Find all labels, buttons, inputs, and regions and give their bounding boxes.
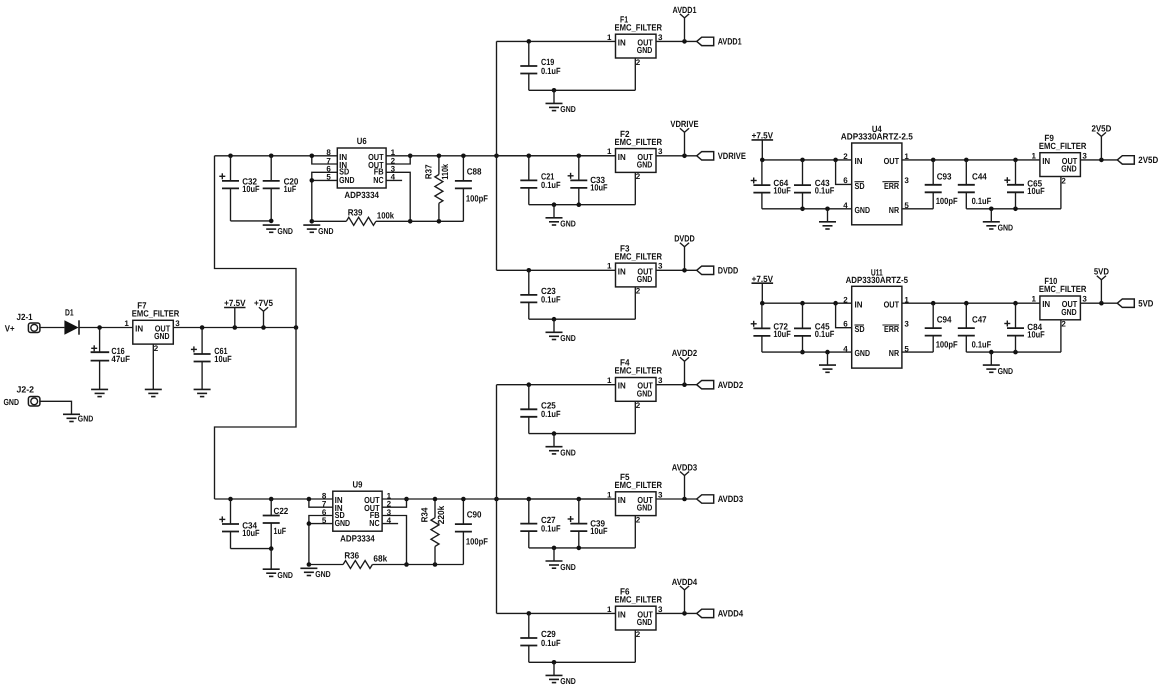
svg-text:1: 1 (607, 490, 612, 499)
wire (309, 564, 343, 566)
svg-text:2: 2 (636, 515, 641, 524)
junction (825, 207, 830, 212)
wire (382, 499, 406, 507)
junction (800, 207, 805, 212)
EMC filter F6 (607, 586, 663, 630)
svg-text:NC: NC (373, 175, 384, 185)
svg-text:2: 2 (1061, 176, 1066, 185)
wire (496, 385, 498, 614)
svg-text:10uF: 10uF (590, 183, 608, 193)
wire (215, 155, 338, 157)
junction (682, 39, 687, 44)
capacitor C39 (568, 499, 608, 548)
capacitor C23 (520, 270, 561, 319)
junction (800, 301, 805, 306)
wire (270, 549, 272, 569)
svg-text:2: 2 (636, 172, 641, 181)
svg-text:AVDD1: AVDD1 (673, 5, 697, 15)
svg-text:1: 1 (607, 605, 612, 614)
ground (546, 548, 576, 572)
resistor R37 (423, 156, 450, 222)
wire (496, 41, 498, 270)
junction (682, 497, 687, 502)
svg-text:AVDD4: AVDD4 (672, 577, 697, 587)
svg-text:C90: C90 (467, 510, 482, 520)
svg-text:IN: IN (618, 266, 626, 276)
svg-text:DVDD: DVDD (674, 234, 695, 244)
svg-text:4: 4 (843, 201, 848, 210)
junction (552, 546, 557, 551)
svg-text:EMC_FILTER: EMC_FILTER (615, 251, 663, 261)
wire (312, 156, 338, 164)
wire (152, 344, 154, 389)
svg-text:ADP3330ARTZ-2.5: ADP3330ARTZ-2.5 (841, 132, 913, 142)
svg-text:GND: GND (78, 414, 94, 424)
EMC filter F9 (1031, 133, 1087, 177)
svg-text:1: 1 (1031, 295, 1036, 304)
ground (546, 90, 576, 114)
ground (983, 209, 1013, 233)
svg-text:VDRIVE: VDRIVE (670, 119, 698, 129)
junction (461, 154, 466, 159)
junction (200, 325, 205, 330)
EMC filter F4 (607, 358, 663, 402)
svg-text:5VD: 5VD (1094, 267, 1110, 277)
net label VDRIVE (697, 151, 746, 161)
capacitor C88 (455, 156, 488, 222)
junction (760, 301, 765, 306)
junction (760, 158, 765, 163)
wire (762, 351, 852, 353)
svg-text:3: 3 (658, 605, 663, 614)
ground (546, 434, 576, 458)
svg-text:10uF: 10uF (773, 186, 791, 196)
svg-text:1: 1 (607, 376, 612, 385)
junction (527, 154, 532, 159)
wire (497, 612, 616, 614)
ground (983, 352, 1013, 376)
wire (173, 327, 296, 329)
capacitor C90 (455, 499, 488, 565)
svg-text:3: 3 (1082, 295, 1087, 304)
wire (386, 155, 615, 157)
wire (497, 40, 616, 42)
junction (310, 178, 315, 183)
net label AVDD4 (697, 609, 744, 619)
capacitor C65 (1004, 160, 1045, 209)
capacitor C20 (263, 156, 299, 221)
svg-text:GND: GND (637, 388, 653, 398)
wire (1080, 159, 1117, 161)
svg-text:3: 3 (658, 490, 663, 499)
svg-text:100pF: 100pF (466, 194, 488, 204)
ground (263, 225, 293, 236)
svg-text:4: 4 (843, 344, 848, 353)
capacitor C72 (751, 303, 792, 352)
junction (989, 207, 994, 212)
svg-text:10uF: 10uF (773, 329, 791, 339)
junction (989, 350, 994, 355)
svg-text:0.1uF: 0.1uF (541, 66, 561, 76)
junction (494, 497, 499, 502)
svg-text:0.1uF: 0.1uF (972, 196, 992, 206)
svg-text:D1: D1 (65, 308, 74, 318)
power flag DVDD (674, 234, 695, 271)
junction (310, 219, 315, 224)
svg-text:10uF: 10uF (1027, 186, 1045, 196)
resistor R34 (420, 499, 447, 565)
power flag 5VD (1094, 267, 1110, 304)
junction (269, 154, 274, 159)
svg-text:SD: SD (855, 181, 865, 191)
svg-text:OUT: OUT (884, 156, 900, 166)
svg-text:GND: GND (855, 348, 871, 358)
svg-text:2: 2 (843, 295, 848, 304)
ground (63, 414, 93, 424)
wire (382, 498, 615, 500)
svg-text:SD: SD (855, 324, 865, 334)
svg-text:AVDD2: AVDD2 (672, 348, 697, 358)
svg-text:EMC_FILTER: EMC_FILTER (615, 366, 663, 376)
wire (634, 630, 636, 662)
EMC filter F7 (124, 301, 180, 345)
junction (964, 301, 969, 306)
wire (762, 159, 851, 161)
wire (634, 172, 636, 204)
net label DVDD (697, 266, 739, 276)
junction (577, 154, 582, 159)
junction (577, 202, 582, 207)
wire (656, 498, 697, 500)
wire (497, 269, 616, 271)
svg-text:GND: GND (998, 223, 1014, 233)
junction (433, 562, 438, 567)
ground (263, 569, 293, 580)
junction (307, 562, 312, 567)
wire (902, 159, 1040, 161)
svg-text:GND: GND (855, 205, 871, 215)
wire (215, 498, 333, 500)
svg-text:C94: C94 (937, 315, 952, 325)
wire (529, 204, 636, 206)
wire (634, 287, 636, 319)
svg-text:+7.5V: +7.5V (224, 298, 245, 308)
svg-text:100pF: 100pF (936, 339, 958, 349)
svg-text:10uF: 10uF (242, 528, 260, 538)
wire (529, 89, 636, 91)
svg-text:AVDD2: AVDD2 (718, 380, 743, 390)
svg-text:3: 3 (658, 33, 663, 42)
power flag +7V5 (254, 298, 273, 327)
junction (552, 660, 557, 665)
svg-text:DVDD: DVDD (718, 266, 739, 276)
wire (902, 208, 933, 210)
svg-text:ADP3330ARTZ-5: ADP3330ARTZ-5 (846, 275, 908, 285)
power flag +7.5V (752, 274, 774, 303)
wire (386, 179, 402, 181)
junction (437, 219, 442, 224)
svg-text:GND: GND (560, 104, 576, 114)
junction (1013, 301, 1018, 306)
wire (634, 516, 636, 548)
svg-text:GND: GND (4, 397, 20, 407)
junction (552, 317, 557, 322)
wire (40, 327, 65, 329)
svg-text:EMC_FILTER: EMC_FILTER (1039, 141, 1087, 151)
connector J2-1 (5, 312, 40, 333)
junction (307, 521, 312, 526)
junction (800, 350, 805, 355)
junction (552, 431, 557, 436)
svg-text:110k: 110k (440, 163, 450, 180)
svg-text:GND: GND (637, 274, 653, 284)
junction (307, 497, 312, 502)
junction (682, 268, 687, 273)
capacitor C44 (958, 160, 992, 209)
junction (931, 301, 936, 306)
svg-text:OUT: OUT (884, 299, 900, 309)
svg-text:GND: GND (637, 159, 653, 169)
svg-text:AVDD3: AVDD3 (672, 462, 697, 472)
svg-text:IN: IN (855, 299, 863, 309)
svg-text:1: 1 (607, 262, 612, 271)
power flag AVDD2 (672, 348, 697, 385)
wire (902, 302, 1040, 304)
svg-text:6: 6 (843, 176, 848, 185)
svg-text:ERR: ERR (884, 324, 900, 334)
wire (386, 172, 410, 221)
EMC filter F10 (1031, 276, 1087, 320)
svg-text:C88: C88 (467, 166, 482, 176)
svg-text:+7V5: +7V5 (254, 298, 273, 308)
junction (269, 497, 274, 502)
ground (819, 209, 836, 229)
svg-text:100pF: 100pF (466, 537, 488, 547)
wire (966, 351, 1061, 353)
wire (40, 401, 72, 414)
svg-text:GND: GND (277, 226, 293, 236)
ground (194, 389, 211, 396)
svg-text:3: 3 (904, 176, 909, 185)
svg-text:3: 3 (658, 147, 663, 156)
junction (310, 154, 315, 159)
wire (215, 328, 297, 500)
svg-text:EMC_FILTER: EMC_FILTER (615, 137, 663, 147)
svg-text:GND: GND (637, 617, 653, 627)
svg-text:GND: GND (560, 219, 576, 229)
wire (497, 498, 616, 500)
wire (497, 384, 616, 386)
junction (527, 39, 532, 44)
junction (552, 202, 557, 207)
svg-text:0.1uF: 0.1uF (541, 295, 561, 305)
capacitor C27 (520, 499, 561, 548)
wire (312, 179, 338, 181)
svg-text:1: 1 (607, 147, 612, 156)
svg-text:EMC_FILTER: EMC_FILTER (132, 309, 180, 319)
svg-text:GND: GND (154, 331, 170, 341)
wire (1060, 177, 1062, 209)
junction (682, 154, 687, 159)
junction (433, 497, 438, 502)
ground (546, 662, 576, 686)
svg-text:3: 3 (175, 319, 180, 328)
junction (931, 158, 936, 163)
capacitor C43 (794, 160, 835, 209)
svg-text:IN: IN (618, 609, 626, 619)
power flag AVDD1 (673, 5, 697, 42)
capacitor C32 (219, 156, 260, 221)
svg-text:1: 1 (1031, 151, 1036, 160)
regulator U11 ADP3330ARTZ-5 (843, 267, 909, 368)
junction (527, 497, 532, 502)
wire (634, 58, 636, 90)
capacitor C16 (91, 328, 131, 390)
wire (529, 547, 636, 549)
junction (682, 382, 687, 387)
wire (529, 433, 636, 435)
resistor R36 (343, 551, 388, 569)
wire (79, 327, 133, 329)
svg-text:6: 6 (843, 320, 848, 329)
svg-text:AVDD1: AVDD1 (718, 37, 742, 47)
capacitor C29 (520, 613, 561, 662)
junction (1013, 158, 1018, 163)
wire (382, 523, 398, 525)
svg-text:C44: C44 (972, 171, 987, 181)
wire (386, 156, 410, 164)
wire (382, 516, 406, 565)
wire (215, 156, 297, 328)
svg-text:GND: GND (560, 448, 576, 458)
junction (408, 219, 413, 224)
svg-text:NR: NR (889, 348, 900, 358)
wire (836, 303, 852, 328)
regulator U4 ADP3330ARTZ-2.5 (841, 124, 913, 225)
junction (461, 497, 466, 502)
capacitor C21 (520, 156, 561, 205)
ground (546, 319, 576, 343)
wire (312, 220, 347, 222)
svg-text:3: 3 (1082, 151, 1087, 160)
svg-text:0.1uF: 0.1uF (815, 329, 835, 339)
svg-text:GND: GND (335, 518, 351, 528)
svg-text:GND: GND (637, 503, 653, 513)
junction (294, 325, 299, 330)
wire (656, 269, 697, 271)
svg-text:C22: C22 (274, 506, 289, 516)
svg-text:2V5D: 2V5D (1091, 123, 1111, 133)
capacitor C22 (263, 499, 289, 549)
junction (1013, 350, 1018, 355)
ground (546, 205, 576, 229)
svg-text:GND: GND (560, 333, 576, 343)
svg-text:2: 2 (843, 152, 848, 161)
svg-text:2: 2 (154, 344, 159, 353)
svg-text:100k: 100k (377, 210, 395, 220)
ground (91, 389, 108, 396)
svg-text:IN: IN (618, 152, 626, 162)
wire (529, 661, 636, 663)
svg-text:IN: IN (855, 156, 863, 166)
svg-text:3: 3 (904, 320, 909, 329)
wire (836, 160, 852, 185)
junction (527, 268, 532, 273)
power flag 2V5D (1091, 123, 1111, 160)
svg-text:R37: R37 (423, 165, 433, 180)
svg-text:5VD: 5VD (1138, 298, 1153, 308)
wire (529, 318, 636, 320)
wire (231, 548, 272, 550)
wire (634, 401, 636, 433)
svg-text:IN: IN (618, 381, 626, 391)
svg-text:+7.5V: +7.5V (752, 131, 773, 141)
svg-text:AVDD4: AVDD4 (718, 609, 744, 619)
power flag +7.5V (752, 131, 774, 160)
capacitor C45 (794, 303, 835, 352)
net label AVDD3 (697, 494, 743, 504)
junction (682, 611, 687, 616)
ground (819, 352, 836, 372)
diode D1 (64, 308, 79, 335)
resistor R39 (346, 208, 395, 226)
power flag VDRIVE (670, 119, 698, 156)
EMC filter F3 (607, 243, 663, 287)
svg-text:R34: R34 (420, 508, 430, 523)
junction (825, 350, 830, 355)
junction (964, 158, 969, 163)
svg-text:2: 2 (636, 630, 641, 639)
svg-text:AVDD3: AVDD3 (718, 494, 743, 504)
capacitor C19 (520, 41, 561, 90)
junction (408, 154, 413, 159)
capacitor C33 (568, 156, 608, 205)
svg-text:10uF: 10uF (1027, 329, 1045, 339)
svg-text:2: 2 (1061, 320, 1066, 329)
svg-text:C47: C47 (972, 315, 987, 325)
svg-text:3: 3 (658, 376, 663, 385)
junction (228, 497, 233, 502)
svg-text:GND: GND (315, 569, 331, 579)
svg-text:1uF: 1uF (284, 184, 297, 194)
junction (404, 562, 409, 567)
svg-text:GND: GND (560, 562, 576, 572)
junction (1013, 207, 1018, 212)
svg-text:GND: GND (1061, 307, 1077, 317)
svg-text:EMC_FILTER: EMC_FILTER (1039, 284, 1087, 294)
svg-text:GND: GND (339, 175, 355, 185)
capacitor C94 (925, 303, 958, 352)
svg-text:IN: IN (1042, 156, 1050, 166)
svg-text:1: 1 (124, 319, 129, 328)
svg-text:220k: 220k (436, 505, 446, 525)
svg-text:NC: NC (369, 518, 380, 528)
svg-text:GND: GND (560, 676, 576, 686)
svg-text:+7.5V: +7.5V (752, 274, 773, 284)
junction (97, 325, 102, 330)
junction (437, 154, 442, 159)
svg-text:2: 2 (636, 287, 641, 296)
svg-text:0.1uF: 0.1uF (815, 186, 835, 196)
svg-text:GND: GND (277, 570, 293, 580)
wire (1060, 320, 1062, 352)
junction (269, 219, 274, 224)
connector J2-2 (4, 384, 40, 407)
svg-text:0.1uF: 0.1uF (541, 180, 561, 190)
svg-text:47uF: 47uF (111, 354, 130, 364)
capacitor C64 (751, 160, 792, 209)
svg-text:1: 1 (607, 33, 612, 42)
